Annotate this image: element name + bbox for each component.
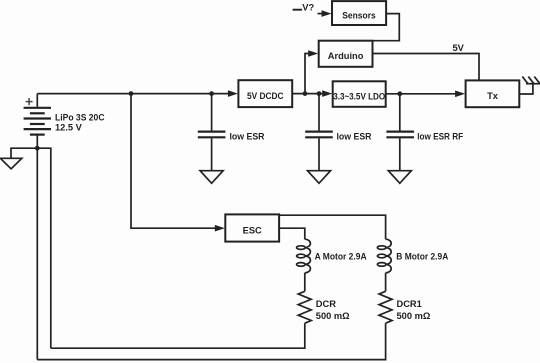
wire: bus to capacitor C3 [399, 94, 401, 131]
motor A label: A Motor 2.9A [315, 251, 367, 261]
svg-text:ESC: ESC [243, 225, 262, 235]
arrow into LDO [322, 90, 332, 97]
antenna (chassis symbol at Tx) [522, 77, 540, 84]
regulator U1: 5V DCDC box [238, 80, 292, 107]
capacitor C2 (low ESR) [305, 132, 333, 138]
resistor DCR [298, 291, 311, 323]
svg-text:12.5 V: 12.5 V [55, 123, 83, 133]
arrow into Arduino [308, 50, 318, 57]
wire: bus to capacitor C2 [318, 94, 320, 131]
motor B label: B Motor 2.9A [396, 251, 448, 261]
wire: ESC to motor B [279, 215, 386, 239]
wire: motor B to DCR1 [385, 273, 387, 292]
ground (battery) [0, 158, 21, 169]
module U5: Arduino box [319, 41, 373, 67]
wire: motor A to DCR [304, 273, 306, 292]
wire: riser up to Arduino [305, 54, 310, 94]
svg-text:low ESR RF: low ESR RF [417, 131, 463, 141]
module U3: Tx box [466, 80, 520, 107]
arrow into Sensors [318, 10, 332, 17]
resistor DCR1 [379, 291, 392, 323]
resistor DCR labels: DCR / 500 mOhm [316, 299, 350, 321]
wire: Sensors to Arduino [373, 14, 400, 41]
svg-text:500 mΩ: 500 mΩ [316, 311, 350, 321]
inductor: motor A coil [297, 239, 311, 273]
net label _V? [293, 3, 315, 13]
module U4: Sensors box [332, 1, 386, 25]
svg-text:low ESR: low ESR [230, 131, 265, 141]
svg-text:5V: 5V [453, 43, 465, 53]
svg-text:A Motor 2.9A: A Motor 2.9A [315, 251, 367, 261]
junction: Arduino riser tap [303, 91, 308, 96]
svg-text:5V DCDC: 5V DCDC [247, 91, 284, 101]
regulator U2: 3.3~3.5V LDO box [333, 81, 386, 107]
ground (C3) [388, 171, 411, 184]
wire: junction down outer return rail [36, 148, 38, 359]
junction: capacitor C2 tap [317, 91, 322, 96]
arrow into Tx [455, 91, 465, 98]
svg-text:Arduino: Arduino [328, 51, 364, 61]
svg-text:Sensors: Sensors [342, 10, 376, 20]
junction: ESC tap on bus [129, 91, 134, 96]
wire: capacitor C1 to ground [211, 138, 213, 170]
svg-text:LiPo 3S 20C: LiPo 3S 20C [55, 112, 105, 122]
svg-text:3.3~3.5V LDO: 3.3~3.5V LDO [333, 91, 385, 101]
junction: capacitor C3 tap [397, 91, 402, 96]
ground (C1) [200, 171, 223, 184]
wire: inner bottom rail to DCR [51, 323, 305, 348]
battery value label: LiPo 3S 20C / 12.5 V [55, 112, 105, 132]
wire: LDO output to Tx [386, 93, 456, 95]
capacitor C1 (low ESR) [198, 132, 226, 138]
capacitor C3 (low ESR RF) [386, 132, 414, 138]
wire: ESC to motor A [279, 228, 305, 239]
battery LiPo 3S 20C [24, 108, 51, 135]
svg-text:V?: V? [302, 3, 314, 13]
svg-text:Tx: Tx [487, 91, 499, 101]
battery plus sign [26, 98, 33, 105]
wire: outer bottom rail to DCR1 [37, 323, 385, 359]
wire: main 12V bus from battery to 5V DCDC [37, 93, 229, 95]
wire: 5V DCDC output to LDO [292, 93, 323, 95]
svg-text:500 mΩ: 500 mΩ [397, 311, 431, 321]
svg-text:B Motor 2.9A: B Motor 2.9A [396, 251, 448, 261]
wire: junction to ground [11, 148, 37, 158]
wire: capacitor C3 to ground [399, 138, 401, 170]
module U6: ESC box [225, 214, 279, 241]
wire: capacitor C2 to ground [318, 138, 320, 170]
junction: capacitor C1 tap [209, 91, 214, 96]
arrow into ESC [215, 225, 225, 232]
wire: Arduino 5V out to Tx [373, 54, 480, 81]
capacitor C3 label: low ESR RF [417, 131, 463, 141]
ground (C2) [308, 171, 331, 184]
wire: bus to capacitor C1 [211, 94, 213, 131]
capacitor C2 label: low ESR [337, 131, 372, 141]
svg-text:low ESR: low ESR [337, 131, 372, 141]
wire: junction to inner return rail [37, 148, 51, 348]
wire: battery positive up to 12V bus [36, 94, 38, 108]
wire: battery negative to junction [36, 135, 38, 149]
net label 5V [453, 43, 465, 53]
wire: bus down and across to ESC [131, 94, 216, 229]
resistor DCR1 labels: DCR1 / 500 mOhm [397, 299, 431, 321]
inductor: motor B coil [377, 239, 391, 273]
junction: battery negative node [35, 146, 40, 151]
arrow into 5V DCDC [228, 90, 238, 97]
svg-text:DCR1: DCR1 [397, 299, 422, 309]
capacitor C1 label: low ESR [230, 131, 265, 141]
svg-text:DCR: DCR [316, 299, 336, 309]
wire: Tx to antenna [519, 84, 533, 94]
